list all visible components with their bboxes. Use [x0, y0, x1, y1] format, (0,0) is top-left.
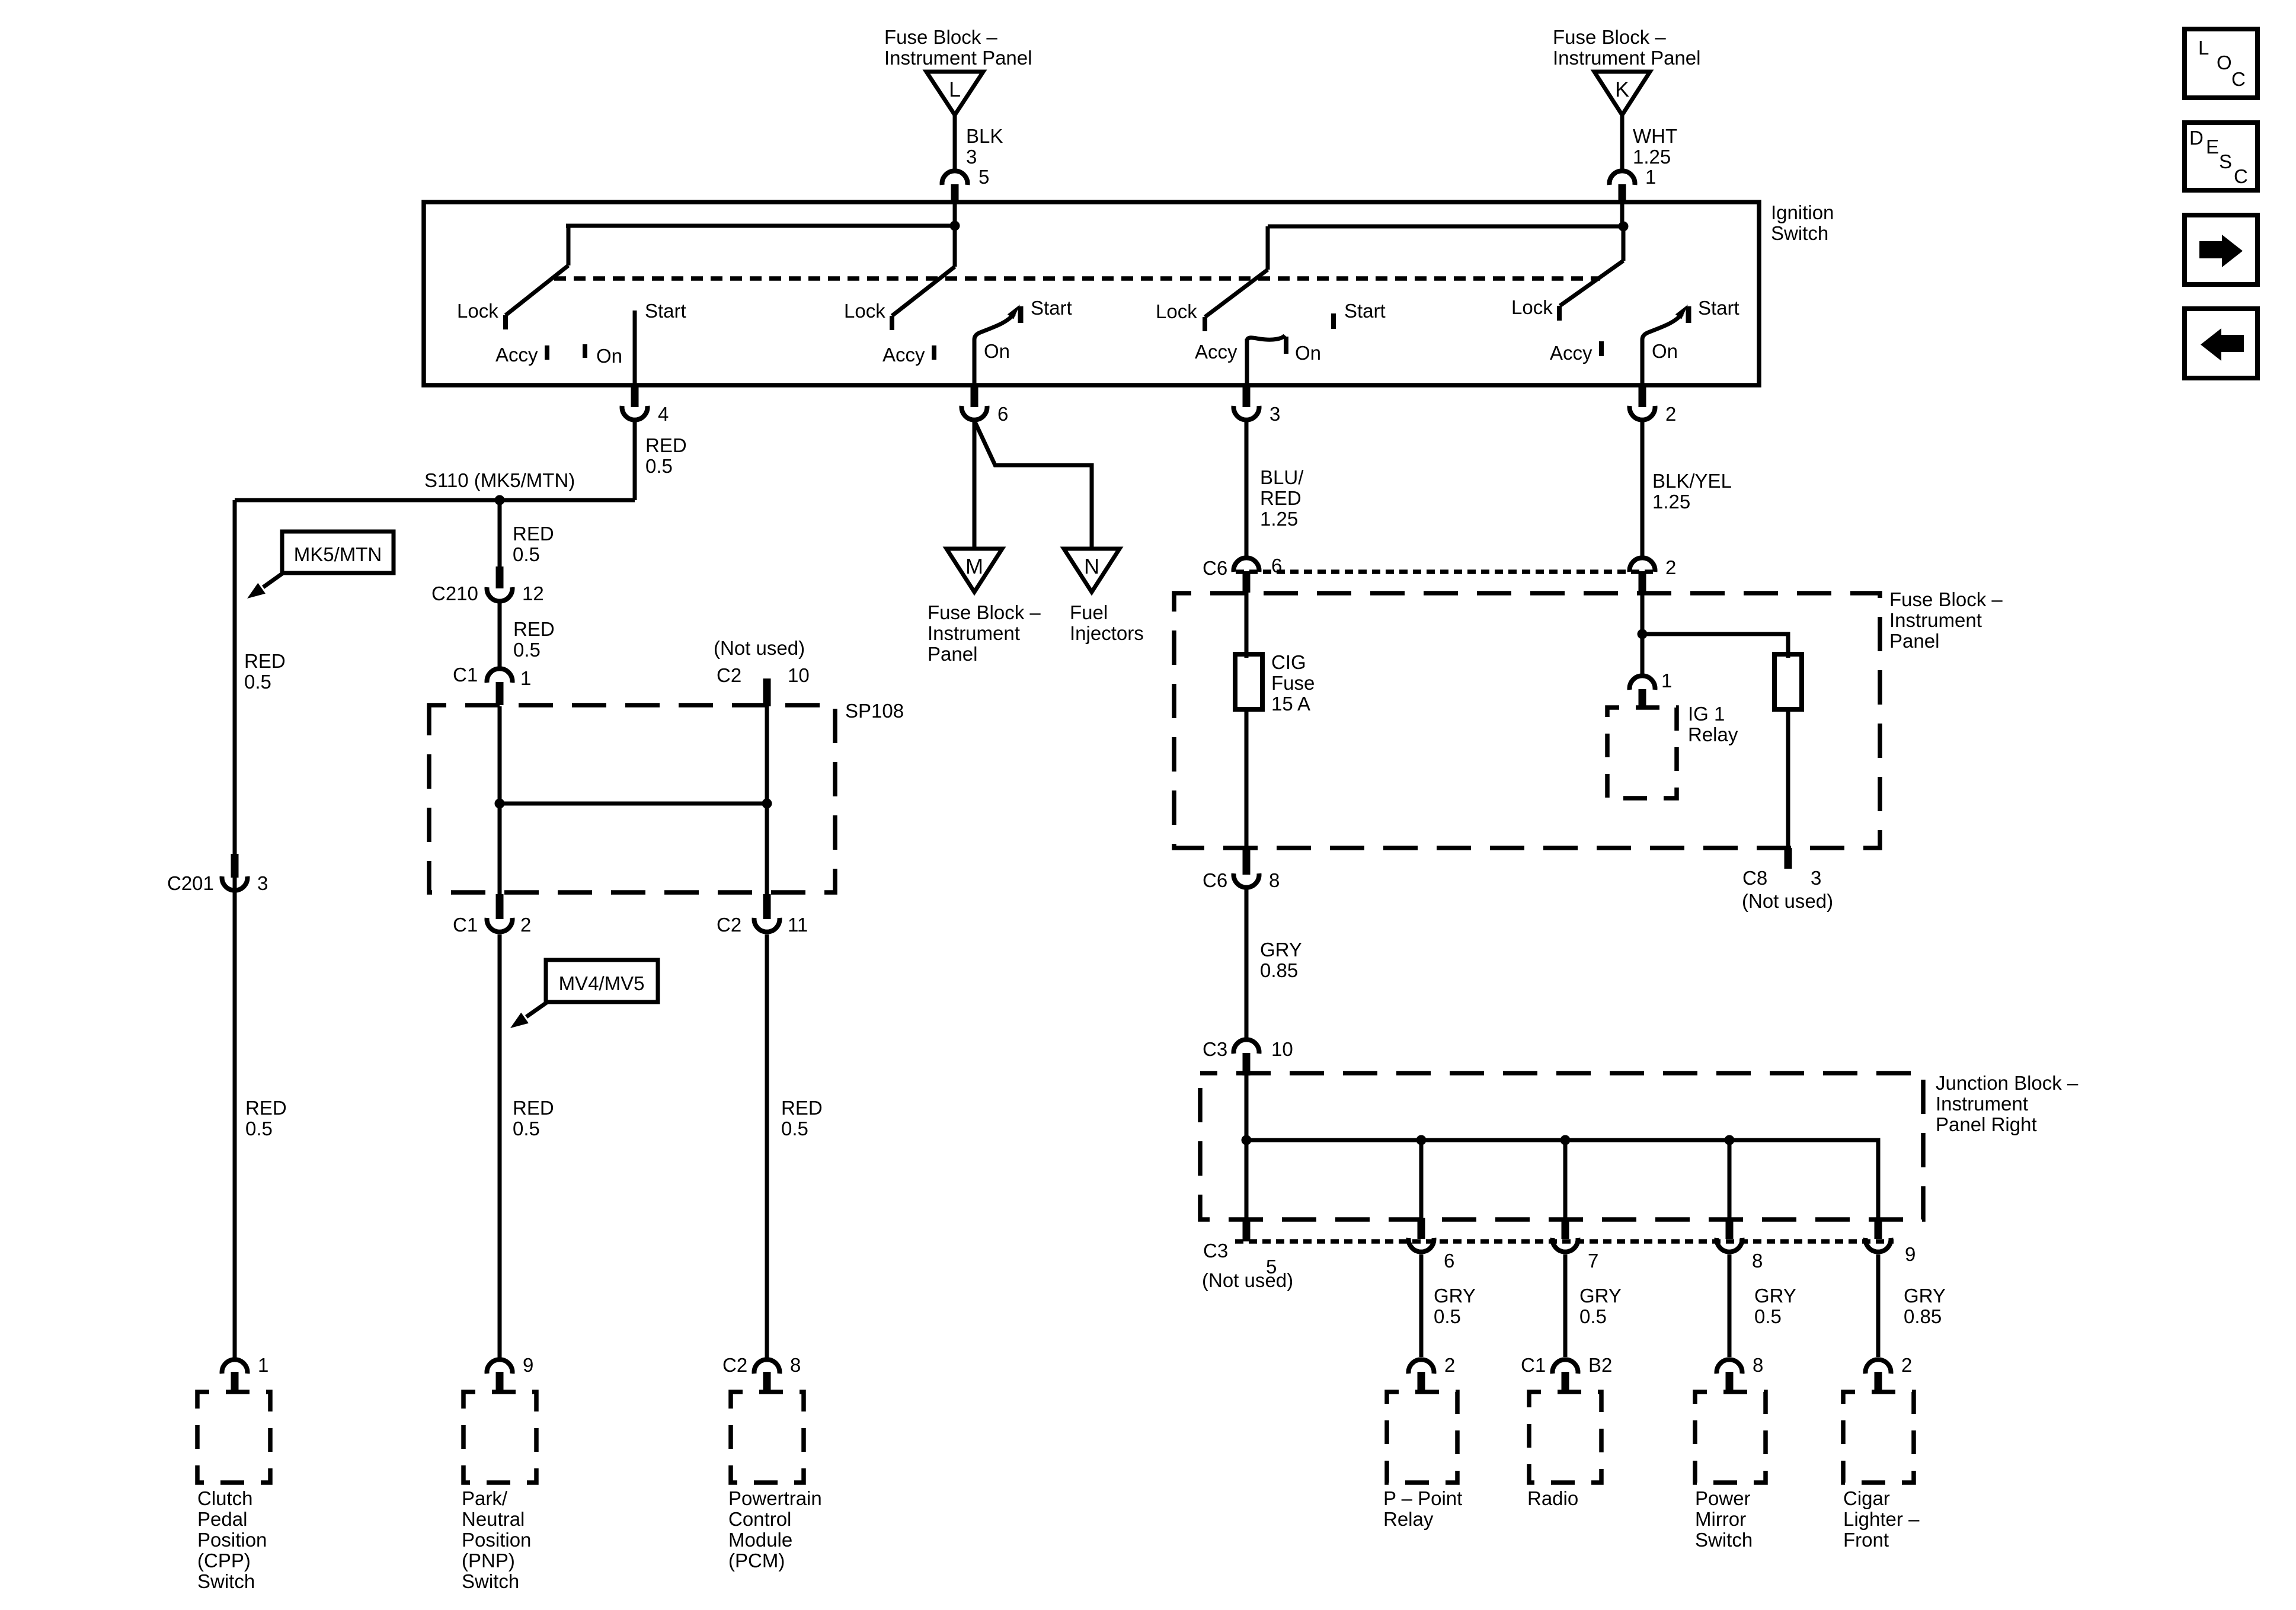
- svg-text:1: 1: [258, 1354, 268, 1376]
- svg-text:MV4/MV5: MV4/MV5: [559, 972, 645, 994]
- svg-text:RED: RED: [245, 1097, 287, 1119]
- label box MK5/MTN with arrow: [247, 532, 394, 598]
- svg-text:Lighter –: Lighter –: [1843, 1508, 1920, 1530]
- svg-text:Instrument Panel: Instrument Panel: [884, 47, 1032, 69]
- svg-text:1.25: 1.25: [1652, 491, 1690, 513]
- svg-text:BLK: BLK: [966, 125, 1003, 147]
- svg-text:10: 10: [1271, 1038, 1293, 1060]
- svg-text:C201: C201: [167, 872, 214, 894]
- connector C3 pin 7: [1553, 1218, 1599, 1272]
- svg-text:C2: C2: [717, 914, 741, 936]
- node bus junction pin5: [1242, 1135, 1252, 1145]
- svg-text:Lock: Lock: [1511, 296, 1553, 318]
- svg-text:L: L: [2198, 37, 2209, 59]
- svg-text:GRY: GRY: [1904, 1285, 1946, 1307]
- svg-text:0.85: 0.85: [1260, 959, 1298, 981]
- switch 4 Accy contact: [1550, 341, 1601, 364]
- switch 3 common wire: [1205, 226, 1268, 317]
- switch 3 Start contact: [1334, 300, 1386, 329]
- wire CIG fuse to C6-8: [1245, 709, 1249, 848]
- switch 1 On contact: [585, 344, 622, 367]
- svg-text:8: 8: [790, 1354, 801, 1376]
- label fuse block IP: [1889, 588, 2003, 652]
- svg-text:Panel Right: Panel Right: [1936, 1113, 2037, 1135]
- switch 3 On contact: [1286, 337, 1321, 364]
- label Clutch Pedal Position (CPP) Switch: [197, 1487, 267, 1592]
- switch 1 Start output wire: [635, 300, 686, 385]
- connector pin 3 under ignition switch: [1234, 385, 1281, 425]
- wire C3-9 down: [1876, 1254, 1881, 1357]
- node junction pin1: [1619, 222, 1629, 232]
- svg-text:On: On: [1652, 340, 1678, 362]
- connector triangle N (Fuel Injectors): [1064, 549, 1144, 644]
- svg-text:0.5: 0.5: [513, 639, 541, 661]
- wire fuse2 to C8-3: [1786, 709, 1790, 848]
- svg-text:0.5: 0.5: [1579, 1305, 1607, 1327]
- wire bus to pin7: [1563, 1140, 1568, 1219]
- svg-text:Switch: Switch: [462, 1570, 519, 1592]
- svg-text:9: 9: [523, 1354, 533, 1376]
- svg-text:On: On: [1295, 342, 1321, 364]
- connector C3 pin 9: [1866, 1218, 1916, 1265]
- component P-Point relay box: [1387, 1392, 1457, 1483]
- svg-text:11: 11: [788, 914, 808, 936]
- svg-text:0.5: 0.5: [781, 1118, 808, 1140]
- svg-text:2: 2: [1665, 556, 1676, 578]
- svg-text:Junction Block –: Junction Block –: [1936, 1072, 2078, 1094]
- wire C6-8 to C3-10: [1245, 889, 1249, 1039]
- svg-text:RED: RED: [1260, 487, 1302, 509]
- svg-text:Instrument: Instrument: [1889, 609, 1982, 631]
- svg-text:2: 2: [1444, 1354, 1455, 1376]
- wire label RED 0.5 PNP: [513, 1097, 554, 1140]
- svg-text:Front: Front: [1843, 1529, 1889, 1551]
- wire PCM branch down: [765, 934, 769, 1358]
- connector C6 pin 6: [1203, 555, 1282, 593]
- svg-text:1.25: 1.25: [1260, 508, 1298, 530]
- wire 2 to junction: [1641, 593, 1645, 634]
- wire label GRY 0.5 pin7: [1579, 1285, 1622, 1327]
- switch 4 On label: [1652, 340, 1678, 362]
- svg-text:0.85: 0.85: [1904, 1305, 1942, 1327]
- svg-text:0.5: 0.5: [245, 1118, 273, 1140]
- wire label RED 0.5 below S110: [513, 523, 554, 565]
- svg-text:Park/: Park/: [462, 1487, 508, 1509]
- svg-text:Fuse Block –: Fuse Block –: [928, 601, 1041, 623]
- svg-text:Start: Start: [645, 300, 686, 322]
- svg-text:C1: C1: [453, 914, 478, 936]
- node bus junction pin6: [1416, 1135, 1427, 1145]
- svg-text:RED: RED: [781, 1097, 823, 1119]
- svg-text:8: 8: [1752, 1250, 1763, 1272]
- wire pin6 to M: [973, 420, 977, 549]
- switch 2 Lock contact: [844, 300, 892, 330]
- svg-text:(Not used): (Not used): [1742, 890, 1833, 912]
- svg-text:GRY: GRY: [1754, 1285, 1796, 1307]
- connector C1 pin 1: [453, 664, 531, 705]
- svg-text:1.25: 1.25: [1633, 146, 1671, 168]
- svg-text:C2: C2: [717, 664, 741, 686]
- switch 1 common wire: [506, 226, 568, 315]
- svg-text:Fuse Block –: Fuse Block –: [884, 26, 997, 48]
- svg-text:0.5: 0.5: [513, 1118, 540, 1140]
- switch 2 On label: [984, 340, 1010, 362]
- wire S110 down: [498, 500, 502, 566]
- wire bus switch3-4: [1268, 225, 1623, 229]
- wire C3-7 down: [1563, 1254, 1568, 1357]
- svg-text:RED: RED: [513, 523, 554, 545]
- svg-text:1: 1: [520, 667, 531, 689]
- switch 3 Accy label: [1195, 341, 1237, 363]
- svg-text:GRY: GRY: [1260, 939, 1302, 961]
- svg-text:(CPP): (CPP): [197, 1550, 251, 1571]
- svg-text:RED: RED: [513, 1097, 554, 1119]
- connector pin 4 under ignition switch: [622, 385, 669, 425]
- svg-text:Radio: Radio: [1527, 1487, 1578, 1509]
- svg-text:Module: Module: [728, 1529, 792, 1551]
- svg-text:1: 1: [1661, 670, 1672, 692]
- svg-text:RED: RED: [244, 650, 286, 672]
- svg-text:3: 3: [1269, 403, 1280, 425]
- junction block IP right dashed box: [1200, 1073, 1923, 1219]
- svg-text:Accy: Accy: [1195, 341, 1237, 363]
- svg-text:Lock: Lock: [457, 300, 498, 322]
- wire C6-6 to CIG fuse: [1245, 593, 1249, 658]
- svg-text:(PNP): (PNP): [462, 1550, 515, 1571]
- wire SP108 right branch: [765, 706, 769, 894]
- svg-text:Switch: Switch: [1695, 1529, 1753, 1551]
- svg-text:Switch: Switch: [1771, 222, 1828, 244]
- svg-text:Instrument: Instrument: [928, 622, 1020, 644]
- svg-text:10: 10: [788, 664, 810, 686]
- svg-text:0.5: 0.5: [1754, 1305, 1782, 1327]
- svg-text:Pedal: Pedal: [197, 1508, 247, 1530]
- switch 2 common wire: [892, 226, 955, 316]
- svg-text:15 A: 15 A: [1271, 693, 1310, 715]
- connector C6 face dotted line: [1236, 569, 1657, 574]
- svg-text:(Not used): (Not used): [1202, 1269, 1293, 1291]
- svg-text:Lock: Lock: [844, 300, 885, 322]
- node S110 (MK5/MTN) splice: [235, 469, 635, 505]
- connector pin 1 at ignition switch: [1609, 166, 1656, 226]
- connector C201 pin 3: [167, 854, 268, 894]
- svg-text:1: 1: [1645, 166, 1656, 188]
- connector C3 pin 8: [1717, 1218, 1763, 1272]
- wire left branch down: [233, 500, 237, 1358]
- svg-text:D: D: [2189, 127, 2204, 149]
- svg-text:C3: C3: [1203, 1240, 1228, 1262]
- svg-text:On: On: [984, 340, 1010, 362]
- svg-text:3: 3: [966, 146, 977, 168]
- connector pin 8 at power mirror switch: [1717, 1354, 1764, 1392]
- svg-text:P – Point: P – Point: [1383, 1487, 1462, 1509]
- svg-text:Position: Position: [197, 1529, 267, 1551]
- svg-text:8: 8: [1753, 1354, 1763, 1376]
- svg-text:6: 6: [997, 403, 1008, 425]
- svg-text:Ignition: Ignition: [1771, 201, 1834, 223]
- svg-text:Clutch: Clutch: [197, 1487, 253, 1509]
- svg-text:S: S: [2219, 151, 2232, 172]
- connector pin 2 at fuse block: [1630, 556, 1677, 593]
- label Park/Neutral Position (PNP) Switch: [462, 1487, 531, 1592]
- wire label RED 0.5 left upper: [244, 650, 286, 693]
- svg-text:Mirror: Mirror: [1695, 1508, 1746, 1530]
- label Cigar Lighter - Front: [1843, 1487, 1920, 1551]
- connector pin 9 at PNP switch: [487, 1354, 534, 1392]
- switch 1 Lock contact: [457, 300, 506, 329]
- wire pin4 to S110: [633, 420, 637, 500]
- wire bus to pin6: [1419, 1140, 1424, 1219]
- wire label RED 0.5 above C1: [513, 618, 555, 661]
- svg-text:3: 3: [257, 872, 268, 894]
- svg-text:C6: C6: [1203, 869, 1227, 891]
- nav box arrow left: [2185, 309, 2257, 378]
- svg-text:Fuse Block –: Fuse Block –: [1553, 26, 1666, 48]
- connector pin 2 at cigar lighter: [1866, 1354, 1913, 1392]
- svg-text:C: C: [2234, 165, 2248, 187]
- connector pin 1 at CPP switch: [222, 1354, 269, 1392]
- svg-text:Start: Start: [1344, 300, 1386, 322]
- wire SP108 bus: [495, 799, 772, 809]
- svg-text:0.5: 0.5: [645, 455, 673, 477]
- connector C2 pin 8 at PCM: [722, 1354, 801, 1392]
- wire bus switch1-2: [566, 224, 955, 228]
- wire label GRY 0.5 pin6: [1434, 1285, 1476, 1327]
- svg-text:(Not used): (Not used): [714, 637, 805, 659]
- svg-text:Neutral: Neutral: [462, 1508, 525, 1530]
- label Radio: [1527, 1487, 1578, 1509]
- svg-text:Power: Power: [1695, 1487, 1751, 1509]
- svg-text:C3: C3: [1203, 1038, 1227, 1060]
- component PNP switch box: [463, 1392, 536, 1483]
- svg-text:C1: C1: [1521, 1354, 1546, 1376]
- wire label BLU/RED 1.25: [1260, 466, 1304, 530]
- svg-text:0.5: 0.5: [513, 543, 540, 565]
- splice pack SP108 box: [429, 700, 904, 892]
- connector C3 pin 5 not used: [1202, 1219, 1293, 1291]
- svg-text:C2: C2: [722, 1354, 747, 1376]
- svg-text:K: K: [1615, 77, 1629, 101]
- wire label BLK 3: [966, 125, 1003, 168]
- connector pin 5 at ignition switch: [942, 166, 990, 226]
- svg-text:5: 5: [978, 166, 989, 188]
- connector triangle M (Fuse Block - Instrument Panel): [928, 549, 1041, 665]
- svg-text:Accy: Accy: [882, 344, 925, 366]
- wire pin2 to 2: [1641, 420, 1645, 558]
- node junction IG1 feed: [1638, 629, 1648, 639]
- svg-text:Instrument Panel: Instrument Panel: [1553, 47, 1700, 69]
- svg-text:N: N: [1084, 554, 1099, 578]
- svg-text:Instrument: Instrument: [1936, 1093, 2028, 1115]
- svg-text:Fuel: Fuel: [1070, 601, 1108, 623]
- svg-text:C: C: [2231, 68, 2246, 90]
- wire junction to fuse 2: [1642, 634, 1788, 658]
- svg-text:Control: Control: [728, 1508, 791, 1530]
- connector C3 pin 6: [1409, 1218, 1455, 1272]
- wire label GRY 0.85: [1260, 939, 1302, 981]
- wire C3-8 down: [1728, 1254, 1732, 1357]
- connector pin 2 at P-Point relay: [1409, 1354, 1456, 1392]
- switch 4 common wire: [1560, 226, 1623, 306]
- wire pin3 to C6-6: [1245, 420, 1249, 558]
- svg-text:Fuse: Fuse: [1271, 672, 1315, 694]
- wire L to pin 5: [953, 115, 957, 170]
- label Powertrain Control Module (PCM): [728, 1487, 822, 1571]
- fuse 2 (not used): [1774, 654, 1802, 709]
- svg-text:Start: Start: [1031, 297, 1072, 319]
- svg-text:Powertrain: Powertrain: [728, 1487, 822, 1509]
- ignition switch box: [424, 202, 1759, 385]
- svg-text:RED: RED: [645, 434, 687, 456]
- component cigar lighter box: [1843, 1392, 1914, 1483]
- svg-text:Position: Position: [462, 1529, 531, 1551]
- svg-text:GRY: GRY: [1434, 1285, 1476, 1307]
- ignition switch label: [1771, 201, 1834, 244]
- wire label C2 10 not used: [714, 637, 810, 706]
- svg-text:B2: B2: [1588, 1354, 1612, 1376]
- wire C210 to C1: [498, 603, 502, 668]
- fuse block IP dashed box: [1174, 593, 1880, 848]
- switch 4 output curve to Start: [1642, 297, 1739, 386]
- wire PNP branch down: [498, 934, 502, 1358]
- label box MV4/MV5 with arrow: [510, 960, 658, 1028]
- svg-text:C6: C6: [1203, 557, 1227, 579]
- component PCM box: [731, 1392, 804, 1483]
- wire label WHT 1.25: [1633, 125, 1677, 168]
- switch 1 Accy contact: [495, 344, 547, 366]
- wire junction to IG1 relay: [1641, 634, 1645, 676]
- connector C2 pin 11: [717, 894, 808, 936]
- svg-text:MK5/MTN: MK5/MTN: [294, 543, 382, 565]
- wire label GRY 0.5 pin8: [1754, 1285, 1796, 1327]
- component CPP switch box: [197, 1392, 270, 1483]
- node bus junction pin8: [1725, 1135, 1735, 1145]
- connector triangle K (Fuse Block - Instrument Panel): [1553, 26, 1700, 115]
- svg-text:C1: C1: [453, 664, 478, 686]
- fuse CIG: [1235, 651, 1315, 715]
- svg-text:Panel: Panel: [1889, 630, 1939, 652]
- connector C1 pin 2: [453, 894, 531, 936]
- switch 2 output curve to Start: [974, 297, 1072, 386]
- wire pin6 branch to N: [975, 422, 1092, 549]
- nav box LOC: [2185, 29, 2257, 98]
- svg-text:(PCM): (PCM): [728, 1550, 785, 1571]
- svg-text:C210: C210: [431, 582, 478, 604]
- connector C1 pin B2 at radio: [1521, 1354, 1612, 1392]
- switch 2 Accy contact: [882, 344, 934, 366]
- wire bus to pin8: [1728, 1140, 1732, 1219]
- svg-text:7: 7: [1588, 1250, 1598, 1272]
- relay IG1 dashed box: [1607, 703, 1738, 798]
- svg-text:Panel: Panel: [928, 643, 977, 665]
- svg-text:Fuse Block –: Fuse Block –: [1889, 588, 2003, 610]
- junction block bus: [1246, 1140, 1878, 1219]
- svg-text:3: 3: [1811, 867, 1821, 889]
- svg-text:C8: C8: [1742, 867, 1767, 889]
- connector C210 pin 12: [431, 566, 544, 604]
- switch 3 output wire to On: [1247, 335, 1285, 385]
- svg-text:CIG: CIG: [1271, 651, 1306, 673]
- svg-text:On: On: [596, 345, 622, 367]
- wire label RED 0.5 PCM: [781, 1097, 823, 1140]
- svg-text:Relay: Relay: [1688, 724, 1738, 745]
- svg-text:IG 1: IG 1: [1688, 703, 1725, 725]
- switch 3 Lock contact: [1156, 300, 1205, 331]
- svg-text:Switch: Switch: [197, 1570, 255, 1592]
- connector C3 pin 10: [1203, 1038, 1293, 1076]
- svg-text:E: E: [2206, 136, 2219, 158]
- connector pin 6 under ignition switch: [962, 385, 1009, 425]
- svg-text:8: 8: [1269, 869, 1280, 891]
- svg-text:RED: RED: [513, 618, 555, 640]
- node bus junction pin7: [1560, 1135, 1571, 1145]
- connector C3 face dotted line: [1235, 1239, 1894, 1244]
- svg-text:Start: Start: [1698, 297, 1739, 319]
- node junction pin5: [950, 221, 960, 231]
- svg-text:12: 12: [522, 582, 544, 604]
- wire label RED 0.5 below pin 4: [645, 434, 687, 477]
- svg-text:Lock: Lock: [1156, 300, 1197, 322]
- wire C3-10 into junction block: [1245, 1076, 1249, 1140]
- svg-text:M: M: [965, 554, 983, 578]
- wire bus to pin5 stub: [1245, 1140, 1249, 1219]
- svg-text:Relay: Relay: [1383, 1508, 1434, 1530]
- svg-text:O: O: [2217, 52, 2232, 73]
- wire label GRY 0.85 pin9: [1904, 1285, 1946, 1327]
- wire label RED 0.5 left lower: [245, 1097, 287, 1140]
- svg-text:Cigar: Cigar: [1843, 1487, 1890, 1509]
- component power mirror switch box: [1695, 1392, 1766, 1483]
- svg-text:BLK/YEL: BLK/YEL: [1652, 470, 1732, 492]
- connector C8 pin 3 not used: [1742, 848, 1833, 912]
- svg-text:2: 2: [1901, 1354, 1912, 1376]
- svg-text:9: 9: [1905, 1243, 1916, 1265]
- svg-text:Injectors: Injectors: [1070, 622, 1144, 644]
- label Power Mirror Switch: [1695, 1487, 1753, 1551]
- wire label BLK/YEL 1.25: [1652, 470, 1732, 513]
- nav box DESC: [2185, 123, 2257, 190]
- wire SP108 left branch: [498, 706, 502, 894]
- label junction block IP right: [1936, 1072, 2078, 1135]
- svg-text:4: 4: [658, 403, 669, 425]
- svg-text:SP108: SP108: [845, 700, 904, 722]
- svg-text:Accy: Accy: [495, 344, 538, 366]
- nav box arrow right: [2185, 215, 2257, 284]
- connector pin 2 under ignition switch: [1630, 385, 1677, 425]
- switch 4 Lock contact: [1511, 296, 1559, 321]
- svg-text:0.5: 0.5: [244, 671, 271, 693]
- svg-text:2: 2: [1665, 403, 1676, 425]
- svg-text:WHT: WHT: [1633, 125, 1677, 147]
- svg-text:2: 2: [520, 914, 531, 936]
- wire K to pin 1: [1620, 115, 1625, 170]
- svg-text:S110 (MK5/MTN): S110 (MK5/MTN): [424, 469, 575, 491]
- wire C3-6 down: [1419, 1254, 1424, 1357]
- svg-text:BLU/: BLU/: [1260, 466, 1304, 488]
- svg-text:GRY: GRY: [1579, 1285, 1622, 1307]
- svg-text:0.5: 0.5: [1434, 1305, 1461, 1327]
- svg-text:6: 6: [1444, 1250, 1454, 1272]
- svg-text:Accy: Accy: [1550, 342, 1593, 364]
- connector triangle L (Fuse Block - Instrument Panel): [884, 26, 1032, 115]
- connector pin 1 at IG1 relay: [1630, 670, 1673, 708]
- svg-text:L: L: [949, 77, 961, 101]
- component radio box: [1529, 1392, 1601, 1483]
- mechanical link dashed line: [554, 276, 1600, 281]
- connector C6 pin 8: [1203, 848, 1280, 891]
- label P - Point Relay: [1383, 1487, 1462, 1530]
